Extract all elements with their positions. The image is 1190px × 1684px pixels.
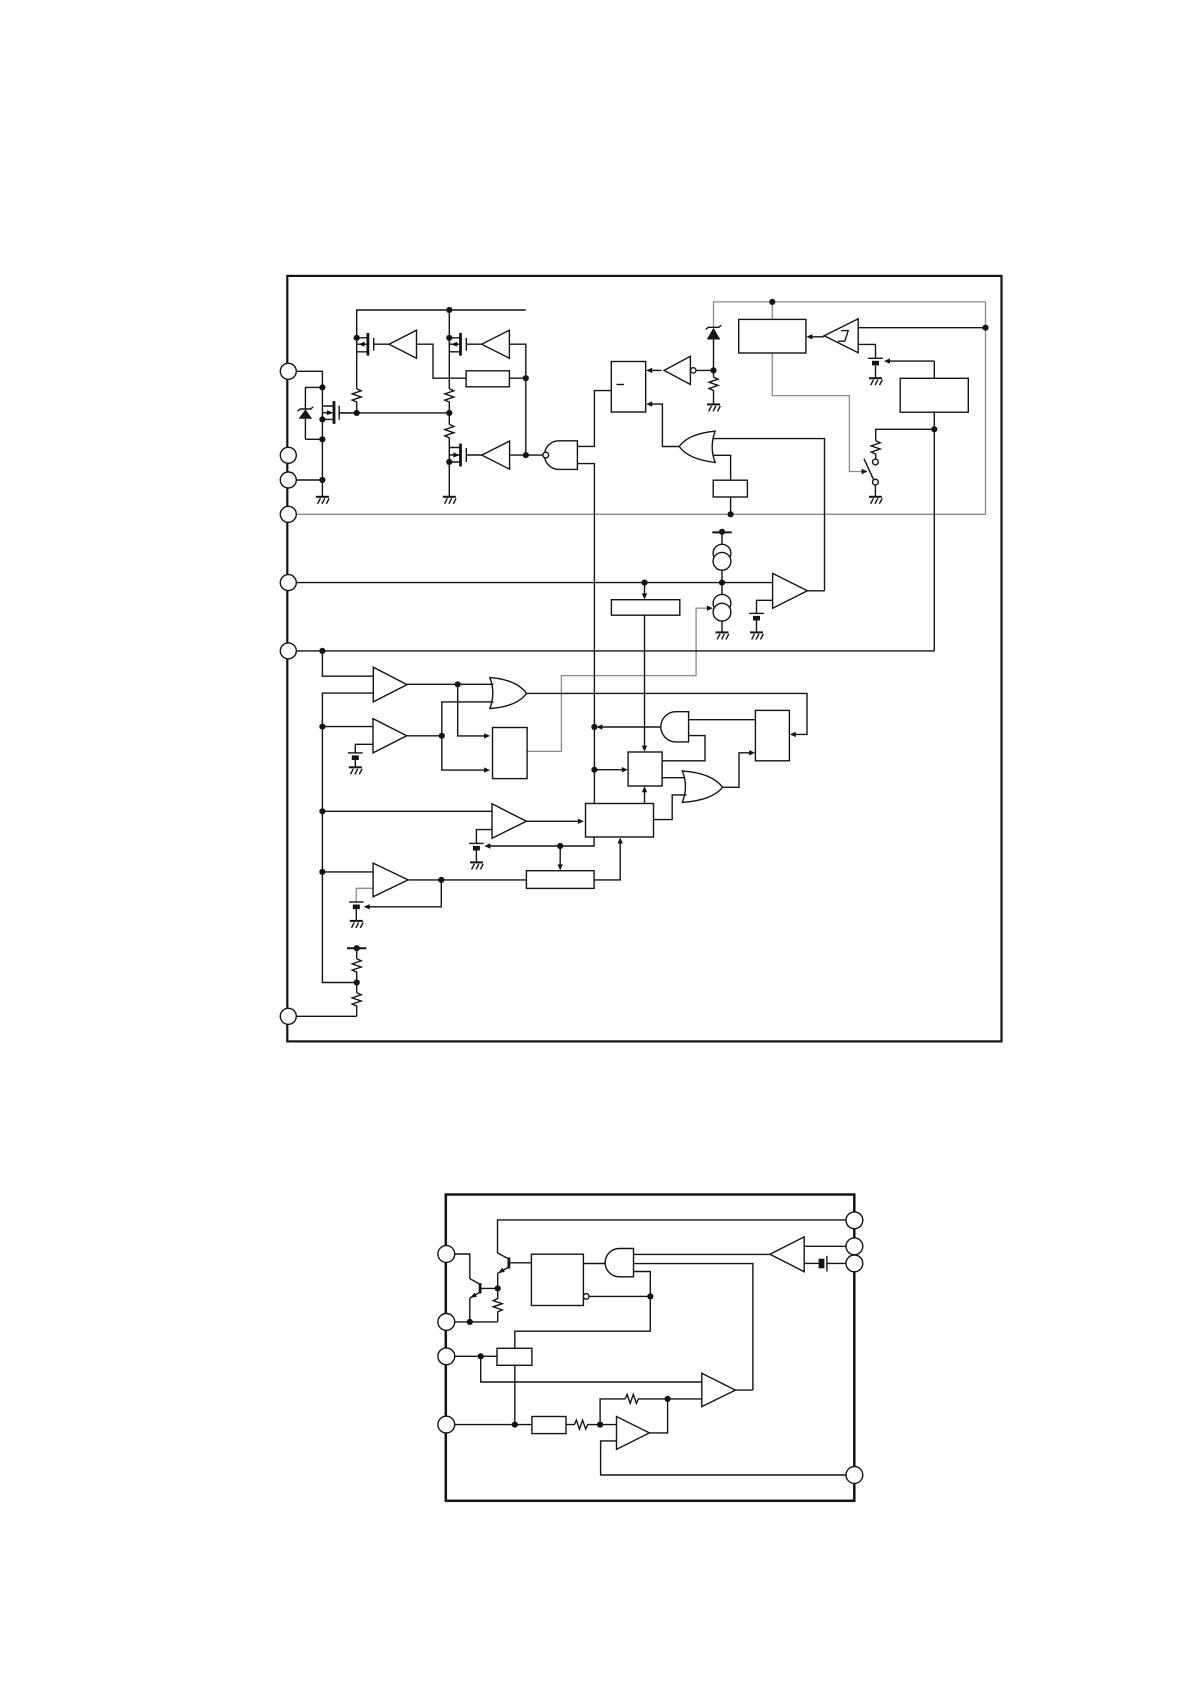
- comparator U9a (buffer J): [373, 667, 407, 702]
- comparator U20: [617, 1417, 650, 1450]
- wire: U4 input from zener node: [696, 369, 714, 371]
- wire: MOSFET Q3 column to ground: [321, 387, 323, 496]
- OSC box U8: [611, 600, 679, 616]
- ground below C1: [869, 378, 882, 385]
- wire: pin7 to divider: [296, 1015, 356, 1017]
- wire: zener bottom to column: [305, 438, 322, 440]
- wire: K upper input: [322, 726, 373, 728]
- wire: pin6 branch to U9a upper input: [322, 651, 373, 676]
- resistor box R4: [466, 371, 509, 387]
- wire: U1b output down: [509, 344, 525, 455]
- wire: comparator U7 output: [807, 590, 824, 592]
- wire: pin B4 row: [455, 1424, 532, 1426]
- wire: G3 output to block U11 right input: [527, 693, 808, 734]
- wire: U16 upper input to pin B6: [804, 1245, 846, 1247]
- wire: I feedback down to capacitor C5 arrow: [367, 880, 442, 907]
- bubble output of U15: [583, 1294, 589, 1300]
- wire: U6 bottom to switch resistor: [876, 429, 935, 440]
- gray wire: block U2 bottom to switch: [772, 353, 864, 472]
- wire: U5 input from gray column: [858, 327, 985, 329]
- wire: U5 lower tap to capacitor C1: [858, 344, 875, 358]
- wire: G5 output to block U11 left input: [723, 753, 753, 788]
- box Q U18: [497, 1348, 532, 1365]
- wire: top supply rail: [357, 310, 526, 389]
- wire: block E right tap to G5 bottom input: [654, 795, 687, 820]
- wire: U6 bottom column to pin6 row: [933, 412, 935, 651]
- internal rail tap T1: [712, 529, 731, 545]
- arrowhead into latch box top: [642, 746, 647, 752]
- wire: H output to block E arrow: [526, 820, 580, 822]
- wire: comparator U9c output row to slope box left: [408, 879, 526, 881]
- zener diode D1: [298, 407, 314, 440]
- wire: R4 to node: [509, 377, 525, 379]
- comparator U7: [773, 573, 808, 608]
- arrowhead into block E bottom: [618, 838, 623, 844]
- wire: schmitt U5 output: [811, 336, 824, 338]
- schmitt trigger U5: [824, 319, 858, 353]
- arrowhead into latch box left: [622, 767, 628, 772]
- wire: U7 lower input to capacitor C2: [757, 600, 773, 613]
- arrowhead into C5: [364, 904, 370, 909]
- capacitor C1: [868, 358, 883, 378]
- wire: I upper input: [322, 871, 373, 873]
- MOSFET Q4: [449, 444, 482, 467]
- wire: G2 output to U3 lower input: [651, 404, 680, 446]
- wire: U9a lower input / feedback bus: [322, 693, 373, 982]
- wire: G6 mid right down to comparator U17 output: [634, 1264, 753, 1391]
- wire: U8 bottom to latch box arrow: [644, 615, 646, 749]
- gray net: zener rail / pin4 feedback loop: [296, 302, 985, 514]
- OR gate G5: [682, 771, 722, 803]
- wire: G4 bottom input from latch box: [662, 736, 705, 761]
- capacitor C3: [348, 753, 363, 767]
- wire: U20 output up to feedback junction: [649, 1399, 667, 1433]
- wire: pin5 row: [296, 582, 772, 584]
- arrowhead into U3 upper input: [646, 368, 652, 373]
- current source CS2: [713, 594, 731, 621]
- inverter U16: [770, 1237, 804, 1272]
- box V U19: [532, 1417, 566, 1434]
- wire: G1 bottom input vertical bus: [577, 464, 594, 804]
- wire: CS1 to pin5 row: [721, 570, 723, 594]
- resistor R2: [445, 389, 454, 425]
- arrowhead into C1: [884, 358, 890, 363]
- ground below SW1: [869, 497, 882, 504]
- wire: U9a output: [407, 683, 458, 685]
- top diagram outer border: [287, 276, 1001, 1042]
- ground below C4: [470, 862, 483, 869]
- ground below C5: [350, 921, 363, 928]
- resistor R9: [352, 993, 361, 1017]
- wire: inverter U4 to U3: [651, 369, 662, 371]
- pin circles B1-B8: [438, 1246, 455, 1263]
- wire: U9a output down to box M top input: [458, 684, 487, 736]
- junction dots top diagram: [446, 307, 452, 313]
- inverter U1a driving Q1 gate: [389, 330, 417, 358]
- wire: G1 output to U1c: [510, 454, 543, 456]
- arrowhead into U2 from schmitt: [806, 334, 812, 339]
- arrowhead into U11 right input: [790, 732, 796, 737]
- box P U15: [531, 1254, 583, 1305]
- arrowhead into box M bottom input: [484, 767, 490, 772]
- resistor box R7: [713, 480, 747, 497]
- wire: CS2 to ground: [721, 621, 723, 632]
- wire: R11 to comparator U20 upper input: [600, 1424, 616, 1426]
- OR gate G3: [490, 678, 527, 709]
- AND gate G6 (mirrored): [605, 1249, 633, 1277]
- box M (PWM latch): [493, 728, 528, 779]
- wire: feedback up from node: [600, 1399, 625, 1425]
- wire: G6 top right to inverter U16 output: [634, 1253, 770, 1255]
- wire: pin6 row: [296, 650, 934, 652]
- resistor R6: [871, 441, 880, 460]
- wire: G6 lower tap to bubble junction: [634, 1272, 651, 1297]
- wire: G4 top input from block U11: [689, 719, 756, 721]
- bottom diagram outer border: [446, 1195, 855, 1501]
- wire: G4 output to bus junction: [600, 726, 661, 728]
- wire: block U6 top tap to C1: [889, 361, 935, 378]
- wire: feedback junction to U17 lower input: [668, 1398, 702, 1400]
- wire: gate net R1-R3 junction row: [339, 412, 449, 414]
- resistor R5: [709, 377, 718, 404]
- wire: U15 top output to AND G6: [583, 1263, 605, 1265]
- inverter U4: [664, 356, 696, 384]
- resistor R12: [625, 1394, 668, 1403]
- wire: pin2: [296, 479, 322, 481]
- wire: zener branch: [305, 387, 322, 409]
- wire: pin1 to zener node: [296, 371, 322, 387]
- comparator U12 (H): [492, 804, 526, 838]
- ground below pin2 column: [316, 497, 329, 504]
- wire: pin5 row into OSC box arrow: [644, 583, 646, 597]
- pin circles P1-P7: [280, 363, 296, 379]
- wire: G1 top input from comparator U3 output: [577, 391, 611, 447]
- internal rail tap T2: [347, 945, 366, 959]
- wire: H lower input to capacitor C4: [476, 830, 492, 844]
- resistor R10: [493, 1288, 502, 1322]
- wire: bus to latch box left arrow: [594, 769, 624, 771]
- wire: MOSFET Q2 column: [448, 310, 450, 389]
- resistor R1: [352, 389, 361, 413]
- comparator box U3: [611, 362, 645, 413]
- wire: U9a output into G3 top input: [458, 683, 494, 685]
- wire: loop junction down into slope box arrow: [559, 846, 561, 868]
- wire: box Q bottom to pin B4 row: [514, 1365, 516, 1424]
- capacitor C2: [749, 613, 764, 632]
- wire: U15 bubble to junction: [589, 1295, 650, 1297]
- wire: U16 lower input to capacitor C6: [804, 1262, 818, 1264]
- wire: K output up to G3 bottom input: [442, 702, 494, 736]
- inverter U1c driving Q4 gate: [482, 441, 510, 469]
- resistor R11: [566, 1420, 600, 1429]
- wire: B3 branch down to comparator U17 upper input: [481, 1356, 702, 1382]
- arrowhead into slope box top: [558, 864, 563, 870]
- wire: U20 lower input loop to pin B8: [601, 1441, 846, 1475]
- wire: pin B2 row: [455, 1321, 498, 1323]
- block U2: [739, 319, 806, 353]
- wire: slope box right up into block E bottom arrow: [594, 840, 620, 880]
- MOSFET Q3: [322, 401, 356, 424]
- wire: H upper input: [322, 810, 492, 812]
- arrowhead into U11 left input: [749, 750, 755, 755]
- wire: pin B3 row: [455, 1355, 497, 1357]
- arrowhead at G4 output junction: [596, 724, 602, 729]
- arrowhead into OSC box: [642, 593, 647, 599]
- gray arrowhead into switch: [862, 469, 868, 474]
- wire: Q6 collector to top right pin row: [498, 1220, 847, 1253]
- ground below CS2: [716, 632, 729, 639]
- comparator U9c (I): [373, 863, 408, 897]
- block E U13: [586, 804, 654, 838]
- wire: U10 right to OR G5 top input: [662, 777, 686, 779]
- comparator U17: [702, 1373, 736, 1406]
- wire: block E top to latch box bottom arrow: [644, 789, 646, 804]
- wire: R7 to gray net: [730, 497, 732, 514]
- block U11: [755, 710, 789, 760]
- arrowhead into C4: [484, 843, 490, 848]
- arrowhead into block E left: [578, 819, 584, 824]
- wire: U1a output down to gate node: [417, 344, 467, 378]
- MOSFET Q1: [357, 333, 389, 356]
- arrowhead into latch box bottom: [642, 786, 647, 792]
- capacitor C4: [469, 843, 484, 862]
- switch SW1: [864, 459, 878, 497]
- gray wire: capacitor C5 to comparator U9 input: [356, 888, 373, 902]
- wire: K lower input to capacitor C3: [355, 744, 373, 753]
- wire: junction down and left into box Q: [515, 1296, 651, 1348]
- ground below Q4: [443, 497, 456, 504]
- wire: G2 bottom input to resistor box R7: [713, 455, 730, 480]
- resistor R8: [352, 959, 361, 993]
- wire: pin B1 to Q5 collector: [455, 1254, 470, 1279]
- zener diode D2: [706, 325, 722, 377]
- comparator U9b (K): [373, 719, 407, 753]
- wire: K output: [407, 735, 442, 737]
- arrowhead into box M top input: [484, 733, 490, 738]
- transistor Q5: [470, 1279, 498, 1322]
- slope box U14: [526, 871, 594, 889]
- ground below C3: [349, 767, 362, 774]
- latch box U10: [628, 752, 662, 786]
- current source CS1: [713, 544, 731, 570]
- inverter U1b driving Q2 gate: [482, 330, 510, 358]
- resistor R3: [445, 424, 454, 496]
- gray arrowhead into current source: [707, 606, 713, 611]
- wire: block E bottom loop to C4 arrow: [488, 837, 595, 846]
- block U6: [900, 378, 968, 412]
- ground below C2: [750, 632, 763, 639]
- capacitor C6: [819, 1256, 846, 1272]
- transistor Q6: [498, 1253, 532, 1289]
- minus label in U3: [617, 384, 625, 386]
- capacitor C5: [349, 902, 364, 921]
- NAND gate G1 (mirrored): [543, 441, 578, 470]
- gray wire: box M output to current source control: [527, 608, 709, 751]
- ground below R5: [707, 404, 720, 411]
- wire: K output down to box M bottom input: [442, 736, 487, 770]
- wire: U17 output: [735, 1389, 753, 1391]
- AND gate G4 (mirrored): [661, 712, 689, 742]
- arrowhead into U3 lower input: [646, 401, 652, 406]
- wire: OR G2 top input / comparator U7 output feed: [713, 439, 825, 591]
- junction dots bottom diagram: [495, 1285, 501, 1291]
- OR gate G2 (mirrored): [679, 431, 715, 462]
- gray wire: branch to block U2 top: [771, 302, 773, 320]
- MOSFET Q2: [449, 333, 481, 356]
